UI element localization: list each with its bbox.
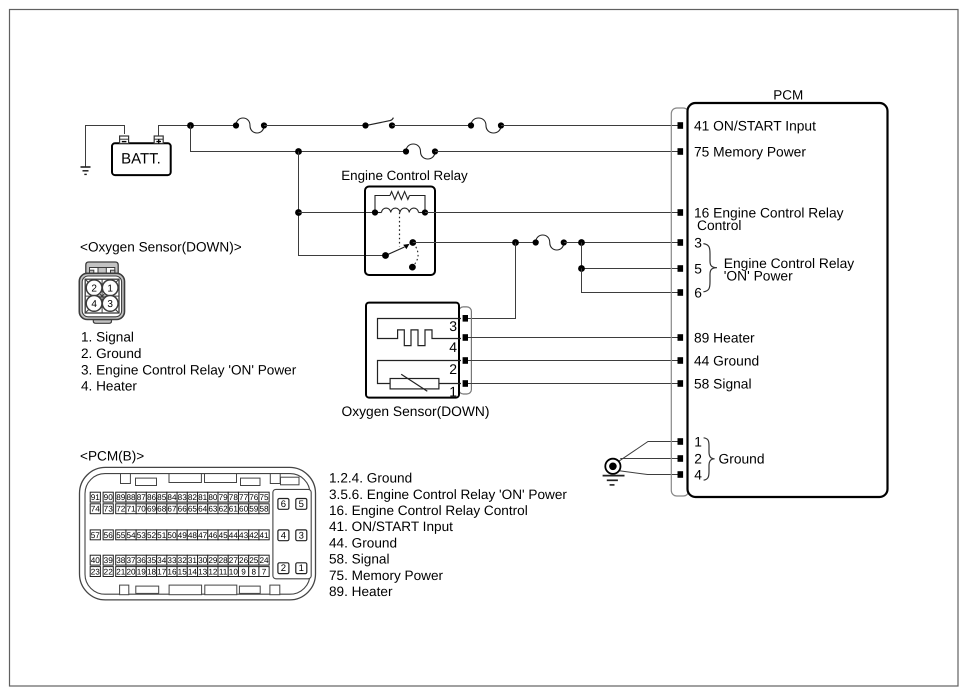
svg-text:1: 1 [299,563,304,574]
svg-text:41: 41 [259,531,269,540]
svg-text:2. Ground: 2. Ground [81,346,141,361]
svg-text:13: 13 [198,568,208,577]
svg-text:89: 89 [116,493,126,502]
svg-text:1: 1 [449,384,457,400]
svg-text:69: 69 [147,505,157,514]
PCM(B) power pin 6 [278,499,289,510]
wire relay coil to PCM pin 16 [425,212,679,214]
wire F2 to PCM pin 41 [501,125,679,127]
svg-text:31: 31 [188,556,198,565]
PCM pin 44 [678,353,760,368]
svg-text:Engine Control Relay: Engine Control Relay [341,168,468,183]
wire sensor pin 2 to PCM pin 44 [468,360,679,362]
svg-text:5: 5 [299,499,304,510]
svg-text:75: 75 [259,493,269,502]
wire node C to relay coil [299,212,376,214]
wire F4 to PCM pin 3 [564,242,679,244]
svg-text:87: 87 [137,493,147,502]
svg-text:65: 65 [188,505,198,514]
PCM pin 6 [678,285,703,300]
svg-text:30: 30 [198,556,208,565]
svg-text:52: 52 [147,531,157,540]
svg-text:44 Ground: 44 Ground [694,353,759,368]
PCM(B) pin row 57-41 [90,530,269,540]
svg-text:70: 70 [137,505,147,514]
wire sensor pin 1 to PCM pin 58 [468,383,679,385]
svg-text:3.5.6. Engine Control Relay 'O: 3.5.6. Engine Control Relay 'ON' Power [329,487,567,502]
svg-text:82: 82 [188,493,198,502]
wire node A down to memory power branch [191,126,407,152]
svg-text:59: 59 [249,505,259,514]
PCM(B) power pin 5 [296,499,307,510]
svg-text:Oxygen Sensor(DOWN): Oxygen Sensor(DOWN) [342,404,490,419]
fusible link F4 [533,235,567,250]
svg-text:73: 73 [104,505,114,514]
node E junction [578,239,585,246]
svg-text:88: 88 [126,493,136,502]
title Oxygen Sensor(DOWN) connector [80,240,242,255]
svg-text:34: 34 [157,556,167,565]
PCM(B) pin row 74-58 [90,504,269,514]
relay title Engine Control Relay [341,168,468,183]
oxygen sensor box [366,303,459,398]
svg-text:71: 71 [126,505,136,514]
svg-text:1: 1 [107,283,113,294]
svg-text:58. Signal: 58. Signal [329,552,389,567]
PCM(B) power pin 3 [296,530,307,541]
svg-text:Control: Control [697,218,741,233]
label Engine Control Relay ON Power [724,256,854,284]
svg-text:47: 47 [198,531,208,540]
ground eyelet terminal [605,459,620,474]
svg-text:25: 25 [249,556,259,565]
brace pins 3-5-6 [703,244,717,292]
sensor element (zirconia cell) [378,361,462,392]
svg-text:44. Ground: 44. Ground [329,535,397,550]
svg-text:42: 42 [249,531,259,540]
PCM box [688,103,888,497]
svg-text:4: 4 [91,299,97,310]
wire node F to PCM pin 6 [582,269,680,293]
PCM(B) power pin 2 [278,563,289,574]
svg-text:1. Signal: 1. Signal [81,330,134,345]
relay actuator dashed link [399,213,401,247]
PCM(B) top notches [121,474,300,486]
wire F3 to PCM pin 75 [435,151,679,153]
svg-text:43: 43 [239,531,249,540]
PCM pin 5 [678,261,703,276]
PCM pin 89 [678,330,755,345]
node F junction [578,265,585,272]
title PCM(B) [80,449,144,464]
svg-text:3: 3 [449,318,457,334]
svg-text:29: 29 [208,556,218,565]
svg-text:78: 78 [229,493,239,502]
svg-text:17: 17 [157,568,167,577]
svg-text:4: 4 [694,467,702,482]
svg-text:91: 91 [91,493,101,502]
svg-text:40: 40 [91,556,101,565]
PCM title [773,88,803,103]
wire battery negative to ground [86,126,125,168]
svg-text:7: 7 [262,568,267,577]
wire node D down to oxygen sensor pin 3 [463,243,516,319]
svg-text:79: 79 [219,493,229,502]
svg-text:41 ON/START Input: 41 ON/START Input [694,118,816,133]
PCM pin 41 [678,118,817,133]
relay resistor branch [375,192,425,213]
svg-text:24: 24 [259,556,269,565]
svg-text:56: 56 [104,531,114,540]
svg-text:3: 3 [694,235,702,250]
relay contact dashed travel arc [415,247,418,264]
sensor pin 1 [449,380,468,399]
oxygen sensor pin legend [81,330,297,394]
wire node A to fusible link 1 [191,125,237,127]
svg-text:75. Memory Power: 75. Memory Power [329,568,444,583]
svg-text:89 Heater: 89 Heater [694,330,755,345]
svg-text:57: 57 [91,531,101,540]
ignition switch [362,118,395,129]
ground at battery [81,167,91,174]
svg-text:9: 9 [241,568,246,577]
svg-text:44: 44 [229,531,239,540]
sensor pin 4 [449,334,468,355]
PCM pin 16 [678,205,844,220]
svg-text:21: 21 [116,568,126,577]
svg-text:3. Engine Control Relay 'ON' P: 3. Engine Control Relay 'ON' Power [81,363,297,378]
svg-text:90: 90 [104,493,114,502]
svg-text:3: 3 [299,530,304,541]
svg-text:66: 66 [178,505,188,514]
svg-text:89. Heater: 89. Heater [329,584,393,599]
PCM(B) power pin section [273,489,311,578]
brace pins 1-2-4 [704,438,715,480]
PCM(B) pin row 23-7 [90,567,269,577]
svg-text:76: 76 [249,493,259,502]
node A junction [187,122,194,129]
svg-text:4: 4 [449,339,457,355]
PCM(B) power pin 1 [296,563,307,574]
svg-text:6: 6 [694,285,702,300]
svg-text:1.2.4. Ground: 1.2.4. Ground [329,471,412,486]
svg-text:62: 62 [219,505,229,514]
PCM pin 1 [678,434,702,449]
PCM pin 75 [678,144,807,159]
svg-text:16. Engine Control Relay Contr: 16. Engine Control Relay Control [329,503,528,518]
svg-text:58: 58 [259,505,269,514]
svg-text:3: 3 [107,299,113,310]
svg-text:84: 84 [167,493,177,502]
wire F1 to ignition switch [264,125,366,127]
PCM pin legend [329,471,567,599]
svg-text:51: 51 [157,531,167,540]
svg-text:4: 4 [281,530,286,541]
battery BATT. [112,136,171,175]
PCM pin 58 [678,376,752,391]
wire ground eyelet to PCM pin 4 [618,471,679,475]
svg-text:85: 85 [157,493,167,502]
svg-text:2: 2 [281,563,286,574]
fusible link F2 [468,118,504,133]
PCM pin 16 label line 2 [697,218,741,233]
svg-text:33: 33 [167,556,177,565]
relay coil L [372,208,428,216]
svg-text:48: 48 [188,531,198,540]
relay NO contact [409,239,416,246]
wire relay contact to fusible link 4 [413,242,536,244]
svg-text:10: 10 [229,568,239,577]
svg-text:12: 12 [208,568,218,577]
svg-text:72: 72 [116,505,126,514]
svg-text:27: 27 [229,556,239,565]
svg-text:38: 38 [116,556,126,565]
svg-text:50: 50 [167,531,177,540]
oxygen sensor caption [342,404,490,419]
svg-text:68: 68 [157,505,167,514]
svg-text:39: 39 [104,556,114,565]
PCM connector strip [671,108,689,496]
svg-text:5: 5 [694,261,702,276]
svg-text:16: 16 [167,568,177,577]
svg-text:83: 83 [178,493,188,502]
svg-text:60: 60 [239,505,249,514]
svg-text:80: 80 [208,493,218,502]
svg-text:67: 67 [167,505,177,514]
oxygen sensor connector face drawing [79,262,124,323]
svg-text:32: 32 [178,556,188,565]
svg-text:74: 74 [91,505,101,514]
PCM(B) connector shell [80,467,316,600]
svg-text:75 Memory Power: 75 Memory Power [694,144,806,159]
svg-text:2: 2 [91,283,97,294]
sensor pin 3 [449,315,468,334]
svg-text:'ON' Power: 'ON' Power [724,268,793,283]
PCM(B) power pin 4 [278,530,289,541]
svg-text:61: 61 [229,505,239,514]
svg-text:86: 86 [147,493,157,502]
svg-text:54: 54 [126,531,136,540]
PCM pin 3 [678,235,703,250]
svg-text:64: 64 [198,505,208,514]
PCM(B) pin row 40-24 [90,555,269,565]
svg-text:26: 26 [239,556,249,565]
svg-text:63: 63 [208,505,218,514]
svg-text:2: 2 [694,451,702,466]
svg-text:6: 6 [281,499,286,510]
chassis ground symbol [603,476,625,485]
wire sensor pin 4 to PCM pin 89 [468,337,679,339]
svg-text:Ground: Ground [719,452,765,467]
oxygen sensor connector strip [459,307,472,394]
svg-text:36: 36 [137,556,147,565]
svg-text:20: 20 [126,568,136,577]
PCM(B) pin row 91-75 [90,492,269,502]
svg-text:58 Signal: 58 Signal [694,376,752,391]
fusible link F3 [403,144,438,159]
sensor pin 2 [449,357,468,377]
svg-text:53: 53 [137,531,147,540]
fusible link F1 [233,118,267,133]
svg-text:18: 18 [147,568,157,577]
svg-text:19: 19 [137,568,147,577]
node D junction (sensor feed) [512,239,519,246]
wire node B down to relay [299,152,386,256]
wire ground eyelet to PCM pin 1 [618,442,679,462]
PCM(B) bottom notches [120,585,280,595]
svg-text:35: 35 [147,556,157,565]
node B junction [295,148,302,155]
wire battery positive to node A [159,126,191,137]
svg-text:1: 1 [694,434,702,449]
svg-text:23: 23 [91,568,101,577]
PCM pin 4 [678,467,703,482]
svg-text:BATT.: BATT. [121,151,161,168]
svg-text:8: 8 [252,568,257,577]
svg-text:<PCM(B)>: <PCM(B)> [80,449,144,464]
svg-text:55: 55 [116,531,126,540]
svg-text:49: 49 [178,531,188,540]
svg-text:46: 46 [208,531,218,540]
wire node E to PCM pin 5 [582,243,680,269]
relay switch armature [382,244,409,259]
svg-text:4. Heater: 4. Heater [81,379,137,394]
svg-text:15: 15 [178,568,188,577]
svg-text:PCM: PCM [773,88,803,103]
relay box [365,187,435,276]
wire switch to fusible link 2 [392,125,471,127]
relay NC contact [409,264,416,271]
svg-text:<Oxygen Sensor(DOWN)>: <Oxygen Sensor(DOWN)> [80,240,242,255]
svg-text:37: 37 [126,556,136,565]
PCM pin 2 [678,451,702,466]
svg-text:11: 11 [219,568,228,577]
svg-text:41. ON/START Input: 41. ON/START Input [329,519,453,534]
svg-text:28: 28 [219,556,229,565]
sensor heater pulse symbol [378,319,462,346]
svg-text:77: 77 [239,493,249,502]
svg-text:22: 22 [104,568,114,577]
label Ground [719,452,765,467]
svg-text:45: 45 [219,531,229,540]
wire ground eyelet to PCM pin 2 [620,458,679,460]
node C junction (coil feed) [295,209,302,216]
svg-text:2: 2 [449,361,457,377]
svg-text:14: 14 [188,568,198,577]
svg-text:81: 81 [198,493,208,502]
